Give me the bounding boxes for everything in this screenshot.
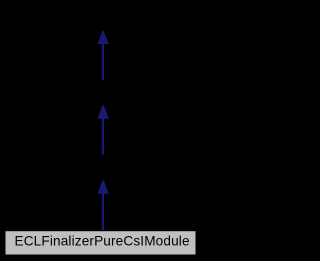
inheritance arrow 1 (top) xyxy=(97,30,109,80)
inheritance arrow 3 (bottom) xyxy=(97,180,109,231)
svg-text:ECLFinalizerPureCsIModule: ECLFinalizerPureCsIModule xyxy=(15,234,190,249)
inheritance arrow 2 (middle) xyxy=(97,105,109,155)
node box ECLFinalizerPureCsIModule xyxy=(5,231,196,255)
